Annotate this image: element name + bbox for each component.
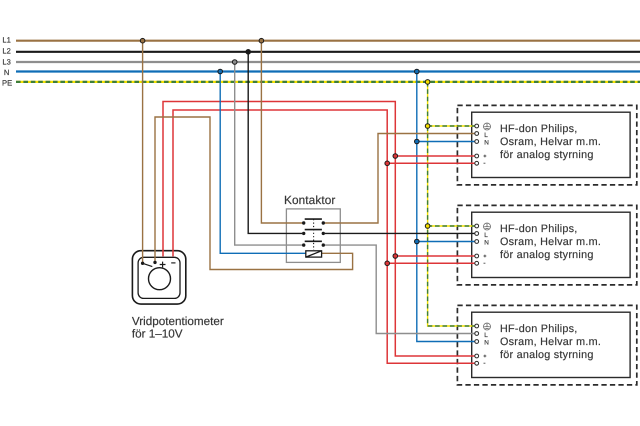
svg-text:L: L (484, 132, 488, 139)
wire L1 bus (16, 40, 640, 42)
wire PE riser to ballasts (green dashes) (428, 82, 475, 326)
wire red plus branch to box 2 (395, 255, 475, 257)
svg-text:Osram, Helvar m.m.: Osram, Helvar m.m. (500, 336, 601, 348)
box 1 earth symbol (484, 123, 491, 130)
junction dot PE branch box 2 (425, 224, 430, 229)
contactor coil A1-A2 (306, 251, 322, 257)
svg-text:N: N (484, 239, 489, 246)
svg-text:HF-don Philips,: HF-don Philips, (500, 223, 578, 235)
svg-text:Kontaktor: Kontaktor (284, 193, 335, 207)
wire PE branch to box 2 earth (green dashes) (428, 225, 475, 227)
potentiometer knob (149, 268, 171, 290)
contactor contact 1 (302, 219, 325, 225)
junction dot red plus branch box 2 (393, 254, 398, 259)
potentiometer switch lever (143, 263, 153, 266)
junction dot red plus branch box 1 (393, 154, 398, 159)
wire L2 bus (16, 51, 640, 53)
box 3 earth symbol (484, 323, 491, 330)
wire gray drop L3 to contactor contact 3 (235, 62, 302, 245)
wire PE riser to ballasts (yellow base) (428, 82, 475, 326)
potentiometer plus mark (160, 262, 166, 268)
contactor contact 2 (302, 230, 325, 235)
wire red minus branch to box 2 (387, 262, 475, 264)
junction dot red minus branch box 2 (385, 261, 390, 266)
wire blue branch to box 2 N (417, 241, 475, 243)
box 3 terminals (475, 324, 479, 365)
box 1 terminal labels (484, 132, 489, 146)
svg-text:N: N (484, 339, 489, 346)
wire PE branch to box 1 earth (green dashes) (428, 125, 475, 127)
contactor contact 3 (302, 241, 325, 247)
svg-text:för analog styrning: för analog styrning (500, 349, 594, 361)
wire black contact 2 to box 2 L (325, 232, 475, 234)
wire red minus branch to box 1 (387, 162, 475, 164)
wire red minus: potentiometer to riser and box 3 (173, 110, 475, 363)
svg-text:Osram, Helvar m.m.: Osram, Helvar m.m. (500, 136, 601, 148)
svg-text:L3: L3 (2, 57, 10, 66)
wire black drop L2 to contactor contact 2 (248, 52, 302, 234)
svg-text:L: L (484, 232, 488, 239)
potentiometer switch terminal 2 (153, 261, 156, 264)
junction dot N branch box 1 (415, 139, 420, 144)
svg-text:N: N (4, 68, 9, 77)
junction dot L2 / contactor drop (246, 50, 251, 55)
svg-text:Osram, Helvar m.m.: Osram, Helvar m.m. (500, 236, 601, 248)
HF-don box 3 (dashed enclosure) (457, 305, 636, 385)
junction dot L3 / contactor drop (232, 60, 237, 65)
wire PE branch to box 2 earth (yellow base) (428, 225, 475, 227)
box 2 earth symbol (484, 223, 491, 230)
junction dot PE branch box 1 (425, 124, 430, 129)
wire PE branch to box 1 earth (yellow base) (428, 125, 475, 127)
potentiometer minus mark (171, 262, 175, 264)
junction dot L1 / potentiometer drop (140, 38, 145, 43)
wire brown contact 1 to box 1 L (325, 134, 475, 224)
contactor linkage (dotted) (313, 219, 315, 250)
junction dot PE / ballast riser (425, 80, 430, 85)
wire PE bus (yellow base) (16, 81, 640, 83)
junction dot N / ballast riser (415, 69, 420, 74)
junction dot N branch box 2 (415, 239, 420, 244)
svg-text:HF-don Philips,: HF-don Philips, (500, 123, 578, 135)
box 2 text (500, 223, 601, 261)
box 1 terminals (475, 124, 479, 165)
contactor K1 box (286, 209, 340, 263)
HF-don box 2 (dashed enclosure) (457, 205, 636, 285)
box 3 text (500, 323, 601, 361)
wire blue drop N to contactor coil (220, 72, 306, 254)
wire blue N riser to ballasts (417, 72, 475, 342)
junction dot red minus branch box 1 (385, 161, 390, 166)
svg-text:Vridpotentiometer: Vridpotentiometer (132, 315, 224, 328)
svg-text:L2: L2 (2, 46, 10, 55)
box 1 text (500, 123, 601, 161)
junction dot N / coil drop (218, 69, 223, 74)
wire blue branch to box 1 N (417, 141, 475, 143)
box 2 terminals (475, 224, 479, 265)
potentiometer P1 body (132, 251, 185, 304)
svg-text:för analog styrning: för analog styrning (500, 249, 594, 261)
svg-text:HF-don Philips,: HF-don Philips, (500, 323, 578, 335)
svg-text:L: L (484, 332, 488, 339)
svg-text:PE: PE (2, 78, 12, 87)
HF-don box 1 (dashed enclosure) (457, 105, 636, 184)
potentiometer switch terminal 1 (141, 262, 144, 265)
wire PE bus (green dashes) (16, 81, 640, 83)
svg-text:för analog styrning: för analog styrning (500, 149, 594, 161)
wire brown control loop: potentiometer switch to coil (155, 117, 353, 270)
svg-text:N: N (484, 139, 489, 146)
box 2 terminal labels (484, 232, 489, 246)
junction dot L1 / contactor drop (259, 38, 264, 43)
wire red plus branch to box 1 (395, 155, 475, 157)
wire brown drop L1 to potentiometer switch (142, 41, 144, 264)
wire N bus (16, 70, 640, 72)
wire brown drop L1 to contactor contact 1 (261, 41, 302, 223)
box 3 terminal labels (484, 332, 489, 346)
svg-text:L1: L1 (2, 35, 10, 44)
svg-text:för 1–10V: för 1–10V (132, 327, 183, 340)
wire red plus: potentiometer to riser and box 3 (163, 102, 475, 357)
wire L3 bus (16, 61, 640, 63)
wire gray contact 3 to box 3 L (325, 245, 475, 333)
